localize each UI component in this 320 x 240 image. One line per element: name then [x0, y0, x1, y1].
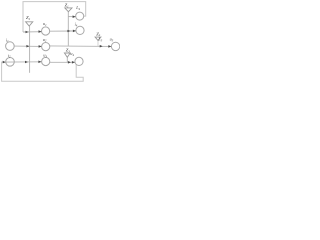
- svg-text:u5: u5: [110, 37, 114, 43]
- wire Z4 apex stub: [97, 40, 99, 46]
- node i3 circle C1: [76, 12, 84, 20]
- svg-text:u4: u4: [70, 51, 74, 57]
- arrow row3 after Z3 junction: [68, 61, 71, 64]
- arrow row2 into D: [108, 45, 111, 48]
- svg-text:u1: u1: [43, 21, 47, 27]
- svg-text:Z1: Z1: [65, 3, 70, 9]
- svg-text:Z2: Z2: [26, 15, 31, 21]
- arrow row3 into B3: [38, 61, 41, 64]
- arrow row3 into E: [72, 61, 75, 64]
- arrow row1 into B1: [39, 30, 42, 33]
- arrow row3 feedback into A2: [3, 61, 6, 64]
- wire row2 left: [14, 45, 41, 47]
- svg-text:u2: u2: [43, 37, 47, 43]
- arrow row2 b: [100, 45, 103, 48]
- node u1 circle B1: [42, 27, 50, 35]
- wire Z2 output vertical: [29, 26, 31, 73]
- impedance Z2 triangle: [26, 22, 33, 26]
- wire Z1 output vertical: [67, 12, 69, 46]
- wire row2 right: [50, 45, 112, 48]
- svg-text:L5: L5: [97, 37, 102, 43]
- arrow row1 into C2: [73, 30, 76, 33]
- impedance Z4 triangle: [95, 37, 101, 40]
- node i4 circle C2: [76, 26, 84, 34]
- node u3 circle B3: [42, 57, 50, 65]
- wire row1 right: [50, 30, 76, 32]
- svg-text:u3: u3: [43, 53, 47, 59]
- wire top feedback band: [23, 2, 86, 32]
- arrow branch into C1: [73, 15, 76, 18]
- impedance Z3 triangle: [64, 53, 70, 57]
- arrow row3 a: [25, 61, 28, 64]
- wire branch to C1: [68, 16, 75, 18]
- arrow row1 a: [26, 31, 29, 34]
- arrow row2 a: [26, 45, 29, 48]
- svg-text:L4: L4: [75, 5, 80, 11]
- wire branch to C2: [68, 30, 76, 32]
- node i2 circle A2: [6, 58, 15, 67]
- wire row3 left: [6, 61, 42, 63]
- node u2 circle B2: [42, 43, 50, 51]
- node u5 circle D: [111, 42, 119, 50]
- wire Z3 output vertical: [66, 57, 68, 62]
- wire bottom feedback loop: [2, 62, 84, 81]
- node i1 circle A1: [6, 42, 15, 51]
- node u4 circle E: [75, 57, 83, 65]
- wire row1 left: [23, 31, 41, 33]
- arrow row2 into B2: [39, 45, 42, 48]
- arrow row1 after Z1 junction: [67, 30, 70, 33]
- wire row3 right: [50, 61, 75, 63]
- impedance Z1 triangle: [65, 8, 72, 12]
